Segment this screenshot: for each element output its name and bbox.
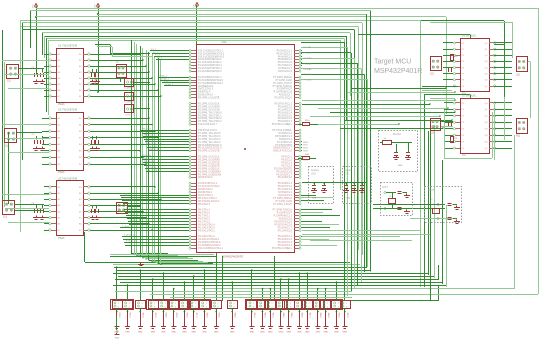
wire top bus run 4 bbox=[36, 16, 446, 18]
svg-text:R31 0: R31 0 bbox=[129, 313, 131, 318]
MCU pin row 38 bbox=[191, 171, 196, 173]
svg-text:P_BckL_0: P_BckL_0 bbox=[122, 193, 133, 195]
svg-text:1: 1 bbox=[290, 303, 291, 305]
MCU pin row 2 bbox=[191, 53, 196, 55]
svg-text:PM_UC10: PM_UC10 bbox=[144, 161, 155, 163]
ground GND under J42 bbox=[260, 326, 265, 328]
ground GND under J33 bbox=[150, 326, 155, 328]
MCU pin row 25 bbox=[191, 130, 196, 132]
svg-text:R43 0: R43 0 bbox=[271, 313, 273, 318]
wire top bus run 8 bbox=[22, 22, 362, 24]
MCU pin row 33 bbox=[191, 156, 196, 158]
svg-text:LDO: LDO bbox=[344, 172, 349, 175]
resistor R10 bbox=[303, 157, 310, 160]
svg-text:P_BckL_8: P_BckL_8 bbox=[130, 220, 141, 222]
svg-text:P6.1/A1: P6.1/A1 bbox=[304, 46, 313, 49]
MCU pin row 23 bbox=[191, 121, 196, 123]
svg-text:P7.2/PM_C1OUT: P7.2/PM_C1OUT bbox=[273, 203, 292, 206]
svg-text:HFXT: HFXT bbox=[428, 189, 435, 192]
svg-text:GND: GND bbox=[230, 332, 235, 334]
svg-text:PM_UC5: PM_UC5 bbox=[147, 143, 157, 145]
connector J39 2-pin header bbox=[212, 301, 222, 309]
svg-text:GND: GND bbox=[323, 332, 328, 334]
MCU pin row 32 bbox=[191, 150, 196, 152]
svg-text:R38 0: R38 0 bbox=[206, 313, 208, 318]
MCU pin row 3 bbox=[191, 56, 196, 58]
connector J22 (right of U6 right) bbox=[517, 57, 528, 72]
svg-text:DVCC2/C1.0: DVCC2/C1.0 bbox=[278, 70, 292, 73]
wire loop around U7 bbox=[444, 110, 446, 158]
svg-text:GND: GND bbox=[398, 165, 403, 167]
svg-text:2: 2 bbox=[272, 306, 273, 308]
svg-text:P10.4/TA3.0/C0.7: P10.4/TA3.0/C0.7 bbox=[198, 123, 217, 126]
MCU pin row 44 bbox=[191, 192, 196, 194]
svg-text:GND: GND bbox=[346, 198, 351, 200]
MCU pin row 49 bbox=[191, 209, 196, 211]
wire left IC3 pin nets bbox=[44, 186, 49, 188]
connector group J43 outline bbox=[265, 300, 288, 310]
power +3V3 supply P1 bbox=[36, 7, 38, 11]
svg-text:SW1: SW1 bbox=[303, 145, 309, 147]
wire top bus run 14 bbox=[48, 40, 341, 42]
svg-text:R48 0: R48 0 bbox=[319, 313, 321, 318]
svg-text:SWCLKTCK/C1.0: SWCLKTCK/C1.0 bbox=[273, 150, 293, 153]
capacitor C2x digital LDO bbox=[344, 185, 348, 187]
wire right IC1 nets bbox=[443, 42, 453, 44]
MCU pin row 24 bbox=[191, 124, 196, 126]
connector J21 (right of U6 left) bbox=[431, 57, 442, 71]
MCU pin row 53 bbox=[191, 221, 196, 223]
MCU pin row 40 bbox=[191, 177, 196, 179]
svg-text:GND: GND bbox=[342, 332, 347, 334]
connector J24 (right of U7) bbox=[517, 119, 528, 134]
connector J30 2-pin header bbox=[113, 301, 123, 309]
svg-text:GND: GND bbox=[286, 332, 291, 334]
svg-text:PM_UC1: PM_UC1 bbox=[143, 131, 153, 133]
MCU pin row 28 bbox=[191, 139, 196, 141]
connector group J47 outline bbox=[302, 300, 325, 310]
connector J35 2-pin header bbox=[169, 301, 179, 309]
capacitor C10 (left column decoupling) bbox=[42, 205, 44, 208]
svg-text:S_RST_J: S_RST_J bbox=[125, 115, 134, 117]
wire MCU right net group A labels bbox=[301, 50, 302, 52]
connector B2 near IC3 bbox=[117, 203, 128, 214]
wire center vertical bundle bbox=[131, 40, 133, 254]
connector J37 2-pin header bbox=[189, 301, 199, 309]
svg-text:1: 1 bbox=[206, 303, 207, 305]
wire top bus run 6 bbox=[430, 22, 513, 24]
svg-text:2: 2 bbox=[118, 306, 119, 308]
MCU pin row 27 bbox=[191, 136, 196, 138]
svg-text:PW16: PW16 bbox=[58, 237, 65, 240]
ground GND under J49 bbox=[323, 326, 328, 328]
wire long horizontals below MCU right bbox=[302, 230, 420, 232]
svg-text:PJ_2: PJ_2 bbox=[155, 55, 161, 57]
svg-text:2: 2 bbox=[234, 306, 235, 308]
svg-text:PM_UC7: PM_UC7 bbox=[149, 149, 159, 151]
wire jog feeds to MCU group A bbox=[95, 44, 110, 46]
ground GND under J45 bbox=[286, 326, 291, 328]
svg-text:SW0: SW0 bbox=[303, 142, 309, 144]
capacitor C12 (left column decoupling) bbox=[96, 205, 98, 208]
inductor L1 bbox=[383, 141, 392, 145]
wire between right ICs bbox=[422, 86, 458, 88]
svg-text:GND: GND bbox=[182, 332, 187, 334]
svg-text:GND: GND bbox=[115, 338, 120, 340]
svg-text:R20: R20 bbox=[454, 56, 457, 58]
block LFXT (dashed) bbox=[381, 183, 413, 216]
svg-text:R41 0: R41 0 bbox=[253, 313, 255, 318]
svg-text:S_UART_TX: S_UART_TX bbox=[124, 101, 136, 104]
ground GND under J31 bbox=[125, 326, 130, 328]
connector group J37 outline bbox=[188, 300, 211, 310]
connector J48 2-pin header bbox=[314, 301, 324, 309]
connector J11 (far left top) bbox=[7, 65, 19, 79]
capacitor C30 bbox=[394, 152, 398, 154]
svg-text:P_BckL_14: P_BckL_14 bbox=[126, 241, 138, 243]
MCU pin row 59 bbox=[191, 242, 196, 244]
svg-text:R30 0: R30 0 bbox=[118, 313, 120, 318]
MCU pin row 21 bbox=[191, 115, 196, 117]
ground GND under J41 bbox=[249, 326, 254, 328]
svg-text:PM_UC13: PM_UC13 bbox=[147, 170, 158, 172]
MCU pin row 10 bbox=[191, 80, 196, 82]
ground GND under J44 bbox=[278, 326, 283, 328]
svg-text:P_BckL_10: P_BckL_10 bbox=[122, 226, 134, 228]
svg-text:R21: R21 bbox=[454, 138, 457, 140]
svg-text:P4.0/A13/TA0.1: P4.0/A13/TA0.1 bbox=[198, 229, 215, 232]
svg-text:J22: J22 bbox=[516, 73, 521, 76]
svg-text:R9 0: R9 0 bbox=[305, 120, 310, 122]
svg-text:1: 1 bbox=[186, 303, 187, 305]
wire top bus run 7 bbox=[20, 20, 420, 22]
svg-text:P6.4/A9/C1.0: P6.4/A9/C1.0 bbox=[278, 176, 293, 179]
MCU pin row 61 bbox=[191, 248, 196, 250]
svg-text:1: 1 bbox=[118, 303, 119, 305]
wire MCU right net group B bbox=[301, 141, 302, 143]
svg-text:R11: R11 bbox=[516, 134, 521, 137]
capacitor C8 (left column decoupling) bbox=[96, 136, 98, 139]
svg-text:R45 0: R45 0 bbox=[290, 313, 292, 318]
svg-text:R46 0: R46 0 bbox=[301, 313, 303, 318]
svg-text:LFXT: LFXT bbox=[382, 186, 388, 189]
MCU pin row 50 bbox=[191, 212, 196, 214]
connector group J35 outline bbox=[168, 300, 191, 310]
IC U2 74LVC buffer (left column middle) bbox=[57, 113, 84, 171]
MCU pin row 36 bbox=[191, 165, 196, 167]
connector group J45 outline bbox=[283, 300, 306, 310]
wire top bus run 3 bbox=[98, 14, 367, 16]
svg-text:PJ_1: PJ_1 bbox=[153, 52, 159, 54]
connector J31 2-pin header bbox=[123, 301, 133, 309]
block HFXT (dashed) bbox=[425, 187, 462, 223]
capacitor C32 bbox=[397, 191, 401, 193]
svg-text:R36 0: R36 0 bbox=[186, 313, 188, 318]
svg-text:R44 0: R44 0 bbox=[282, 313, 284, 318]
svg-text:UCA0_0: UCA0_0 bbox=[159, 74, 168, 77]
MCU pin row 17 bbox=[191, 103, 196, 105]
svg-text:P_BckL_12: P_BckL_12 bbox=[124, 235, 136, 237]
capacitor C6 (left column decoupling) bbox=[42, 136, 44, 139]
svg-text:SW2: SW2 bbox=[303, 148, 309, 150]
wire MCU bottom-left exit bbox=[216, 253, 218, 295]
wire top bus run 12 bbox=[44, 36, 347, 38]
connector J50 2-pin header bbox=[332, 301, 342, 309]
svg-text:GND: GND bbox=[202, 332, 207, 334]
svg-text:2: 2 bbox=[309, 306, 310, 308]
connector J34 2-pin header bbox=[159, 301, 169, 309]
ground GND under J48 bbox=[315, 326, 320, 328]
MCU pin row 9 bbox=[191, 77, 196, 79]
svg-text:PM_UC6: PM_UC6 bbox=[148, 146, 158, 148]
svg-text:U1 74LVC8T245: U1 74LVC8T245 bbox=[58, 44, 78, 48]
IC U7 level shifter (right bottom) bbox=[461, 99, 490, 154]
MCU pin row 37 bbox=[191, 168, 196, 170]
MCU pin row 48 bbox=[191, 203, 196, 205]
MCU pin row 22 bbox=[191, 118, 196, 120]
svg-text:U3 74LVC8T245: U3 74LVC8T245 bbox=[58, 177, 78, 181]
capacitor C5 (left column decoupling) bbox=[36, 136, 38, 139]
svg-text:TARGET_RST: TARGET_RST bbox=[94, 71, 97, 85]
svg-text:P6.3/A3: P6.3/A3 bbox=[304, 57, 313, 60]
wire MCU bottom exit verticals to bus bbox=[222, 256, 224, 301]
svg-text:2: 2 bbox=[253, 306, 254, 308]
svg-text:PM_UC11: PM_UC11 bbox=[145, 164, 156, 166]
jumper J17 2-pin bbox=[125, 105, 134, 113]
wire top bus run 5 bbox=[33, 20, 504, 22]
wire left edge vertical net 3 bbox=[8, 132, 10, 204]
ground GND under J30 bbox=[114, 326, 119, 328]
svg-text:R37 0: R37 0 bbox=[195, 313, 197, 318]
svg-text:UCA0_1: UCA0_1 bbox=[161, 77, 170, 80]
svg-text:2: 2 bbox=[346, 306, 347, 308]
MCU pin row 7 bbox=[191, 68, 196, 70]
svg-text:P_BckL_2: P_BckL_2 bbox=[124, 199, 135, 201]
svg-text:PM_UC9: PM_UC9 bbox=[143, 158, 153, 160]
MCU pin row 57 bbox=[191, 236, 196, 238]
svg-text:1: 1 bbox=[234, 303, 235, 305]
crystal Y1 32768Hz bbox=[384, 191, 386, 193]
svg-text:MSP432P401R: MSP432P401R bbox=[374, 68, 422, 75]
wire LDO cap feeder bbox=[310, 182, 366, 184]
ground GND under J43 bbox=[268, 326, 273, 328]
svg-text:J21: J21 bbox=[430, 72, 435, 75]
ground chain leftmost extended bbox=[116, 316, 118, 330]
MCU pin row 56 bbox=[191, 230, 196, 232]
wire left edge vertical net 2 bbox=[4, 62, 6, 207]
wire under-IC3 horizontals bbox=[110, 254, 214, 256]
ground GND under J38 bbox=[202, 326, 207, 328]
wire MCU left net group A bbox=[150, 50, 189, 52]
connector J44 2-pin header bbox=[277, 301, 287, 309]
connector J12 (far left middle) bbox=[5, 129, 17, 143]
MCU pin row 16 bbox=[191, 97, 196, 99]
svg-text:PJ_0: PJ_0 bbox=[151, 49, 157, 51]
svg-text:PM_UC0: PM_UC0 bbox=[142, 128, 152, 130]
wire U6 row to x504 vertical bbox=[494, 44, 504, 46]
connector J42 2-pin header bbox=[258, 301, 268, 309]
wire U7 top hook bbox=[470, 95, 472, 99]
wire bottom bus light run to right edge bbox=[202, 288, 515, 290]
capacitor C41 right IC area bbox=[448, 122, 450, 126]
wire top bus run 11 bbox=[42, 32, 350, 34]
block Digital LDO (dashed) bbox=[343, 167, 372, 204]
svg-text:P2.0/PM_UCA1STE: P2.0/PM_UCA1STE bbox=[198, 97, 220, 100]
ground GND under J50 bbox=[334, 326, 339, 328]
svg-text:UCA0_2: UCA0_2 bbox=[163, 80, 172, 83]
svg-text:S_UART_RX: S_UART_RX bbox=[124, 87, 136, 90]
MCU pin row 52 bbox=[191, 218, 196, 220]
svg-text:GND: GND bbox=[316, 332, 321, 334]
wire MCU left net group B bbox=[158, 77, 189, 79]
MCU pin row 8 bbox=[191, 71, 196, 73]
svg-text:SW3: SW3 bbox=[303, 151, 309, 153]
wire left IC rows to left edge bbox=[2, 60, 49, 62]
ground GND under wire bundle bbox=[140, 262, 142, 264]
IC U1 74LVC buffer (left column top) bbox=[57, 49, 84, 103]
connector J51 2-pin header bbox=[341, 301, 351, 309]
svg-text:P6.2/A2: P6.2/A2 bbox=[304, 52, 313, 55]
svg-text:R47 0: R47 0 bbox=[308, 313, 310, 318]
svg-text:P9.2/TA3.3/C1.0: P9.2/TA3.3/C1.0 bbox=[275, 97, 293, 100]
MCU pin row 30 bbox=[191, 144, 196, 146]
svg-text:1: 1 bbox=[253, 303, 254, 305]
svg-text:GND: GND bbox=[214, 332, 219, 334]
IC U6 level shifter (right top) bbox=[461, 39, 490, 92]
connector J47 2-pin header bbox=[303, 301, 313, 309]
ground GND under J39 bbox=[214, 326, 219, 328]
svg-text:PJ_3: PJ_3 bbox=[157, 58, 163, 60]
MCU pin row 26 bbox=[191, 133, 196, 135]
svg-text:2: 2 bbox=[338, 306, 339, 308]
svg-text:LDO: LDO bbox=[311, 172, 316, 175]
wire J22 to J24 via right edge bbox=[527, 61, 530, 63]
svg-text:1: 1 bbox=[272, 303, 273, 305]
resistor R20 bbox=[451, 55, 454, 61]
capacitor C2x digital LDO bbox=[352, 185, 356, 187]
svg-text:J12: J12 bbox=[5, 144, 10, 147]
svg-text:1: 1 bbox=[129, 303, 130, 305]
wire bottom bus run 9 bbox=[113, 285, 447, 287]
connector J38 2-pin header bbox=[200, 301, 210, 309]
capacitor C35 bbox=[447, 217, 451, 219]
svg-text:R42 0: R42 0 bbox=[264, 313, 266, 318]
svg-text:U2 74LVC8T245: U2 74LVC8T245 bbox=[58, 108, 78, 112]
ground GND under J37 bbox=[191, 326, 196, 328]
capacitor C21 bbox=[322, 185, 326, 187]
connector J13 (far left bottom) bbox=[3, 201, 15, 215]
capacitor C11 (left column decoupling) bbox=[92, 205, 94, 208]
wire bottom bus run 7 bbox=[115, 279, 439, 281]
svg-text:GND: GND bbox=[150, 332, 155, 334]
MCU pin row 47 bbox=[191, 200, 196, 202]
svg-text:PM_UC4: PM_UC4 bbox=[146, 140, 156, 142]
svg-text:GND: GND bbox=[161, 332, 166, 334]
wire MCU right net group C bbox=[301, 195, 316, 197]
svg-text:1: 1 bbox=[195, 303, 196, 305]
ground GND under J40 bbox=[230, 326, 235, 328]
svg-text:P_BckL_4: P_BckL_4 bbox=[126, 208, 137, 210]
jumper J16 2-pin bbox=[125, 93, 134, 101]
MCU pin row 31 bbox=[191, 147, 196, 149]
svg-text:R34 0: R34 0 bbox=[165, 313, 167, 318]
MCU pin row 1 bbox=[191, 50, 196, 52]
power +5V supply P2 bbox=[98, 7, 100, 11]
svg-text:J23: J23 bbox=[430, 131, 435, 134]
svg-text:2: 2 bbox=[175, 306, 176, 308]
svg-text:R39 0: R39 0 bbox=[217, 313, 219, 318]
wire bottom bus run 2 bbox=[113, 264, 360, 266]
svg-text:1: 1 bbox=[154, 303, 155, 305]
block DC-DC (dashed) bbox=[379, 131, 418, 172]
capacitor C4 (left column decoupling) bbox=[96, 69, 98, 72]
wire left edge vertical net 1 bbox=[2, 30, 4, 214]
capacitor C33 bbox=[397, 207, 401, 209]
capacitor C7 (left column decoupling) bbox=[92, 136, 94, 139]
svg-text:P3.0/PM_UCA2STE: P3.0/PM_UCA2STE bbox=[198, 150, 220, 153]
wire U6 top hook to bundle bbox=[470, 35, 472, 39]
wire MCU left net group D bbox=[120, 195, 189, 197]
MCU pin row 5 bbox=[191, 62, 196, 64]
MCU pin row 18 bbox=[191, 106, 196, 108]
svg-text:P7.0/S0: P7.0/S0 bbox=[304, 74, 313, 76]
capacitor C34 bbox=[447, 203, 451, 205]
wire top bus run 9 bbox=[21, 26, 358, 28]
svg-text:GND: GND bbox=[260, 332, 265, 334]
svg-text:1: 1 bbox=[175, 303, 176, 305]
wire left IC1 pin nets bbox=[44, 54, 49, 56]
wire MCU left net group C bbox=[141, 130, 189, 132]
MCU pin row 6 bbox=[191, 65, 196, 67]
ground GND under J46 bbox=[297, 326, 302, 328]
MCU pin row 54 bbox=[191, 224, 196, 226]
svg-text:Target MCU: Target MCU bbox=[374, 59, 411, 66]
connector Q1 2x2 box bbox=[117, 65, 127, 78]
svg-text:R51 0: R51 0 bbox=[346, 313, 348, 318]
svg-text:1: 1 bbox=[165, 303, 166, 305]
svg-text:PM_UC8: PM_UC8 bbox=[142, 155, 152, 157]
connector J33 2-pin header bbox=[149, 301, 159, 309]
wire J23 to U7 bbox=[440, 121, 453, 123]
capacitor C20 bbox=[312, 185, 316, 187]
svg-text:P1.4/UCB0STE/TA0.3: P1.4/UCB0STE/TA0.3 bbox=[198, 70, 222, 73]
svg-text:PM_UC2: PM_UC2 bbox=[144, 134, 154, 136]
svg-text:2: 2 bbox=[154, 306, 155, 308]
wire bottom bus run 5 bbox=[113, 273, 429, 275]
MCU pin row 41 bbox=[191, 183, 196, 185]
svg-text:2: 2 bbox=[129, 306, 130, 308]
resistor R9 bbox=[303, 123, 310, 126]
svg-text:GND: GND bbox=[297, 332, 302, 334]
svg-text:GND: GND bbox=[312, 198, 317, 200]
MCU pin row 34 bbox=[191, 159, 196, 161]
wire HFXT horizontals bbox=[373, 204, 445, 206]
resistor R21 bbox=[451, 137, 454, 143]
svg-text:GND: GND bbox=[279, 332, 284, 334]
power VBUS supply P3 bbox=[196, 6, 198, 10]
MCU pin row 29 bbox=[191, 141, 196, 143]
connector group J41 outline bbox=[246, 300, 269, 310]
capacitor C40 right IC area bbox=[448, 68, 450, 72]
MCU pin row 20 bbox=[191, 112, 196, 114]
wire top bus run 10 bbox=[23, 29, 354, 31]
svg-text:2: 2 bbox=[195, 306, 196, 308]
wire top bus run 2 bbox=[30, 10, 371, 12]
wire bottom bus run 8 bbox=[120, 282, 443, 284]
svg-text:AVSS3/TA0.0: AVSS3/TA0.0 bbox=[198, 176, 213, 179]
ground GND under J35 bbox=[171, 326, 176, 328]
connector J46 2-pin header bbox=[295, 301, 305, 309]
